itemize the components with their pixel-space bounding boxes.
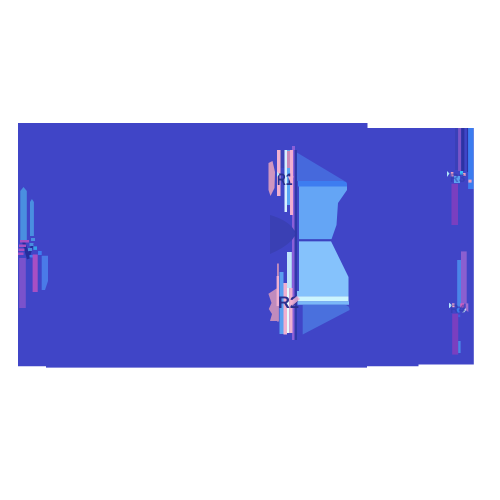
op-amp U1 lightest band <box>298 296 349 301</box>
label V1 (glitchy V strokes) <box>22 240 31 260</box>
voltage source V1 plate <box>20 187 27 242</box>
resistor R1 stripes <box>269 161 276 196</box>
op-amp U1 bottom wedge <box>303 305 350 335</box>
op-amp U1 band lower <box>298 301 350 305</box>
wire (purple vertical at op-amp left edge) <box>292 146 295 340</box>
op-amp U1 body upper <box>299 187 347 240</box>
resistor R4 lower stripe <box>452 314 458 355</box>
op-amp U1 top wedge <box>296 152 345 181</box>
V1 magenta glitch dashes <box>20 240 29 243</box>
resistor R3 top stripes <box>455 128 458 170</box>
label R4 (glitch marks) <box>449 303 453 309</box>
node A (dark beak, op-amp input junction) <box>270 215 295 254</box>
wire (V1 lower magenta stripe) <box>33 255 38 293</box>
resistor R3 lower stripe <box>452 184 459 225</box>
voltage source V1 plate 2 <box>30 199 34 236</box>
wire (V1 lower blue stripe) <box>42 256 48 290</box>
label V1 digit marks <box>33 246 37 250</box>
label R3 (glitch marks) <box>447 171 450 177</box>
wire (seam between op-amp halves) <box>299 239 332 241</box>
op-amp U1 bright band <box>298 181 347 187</box>
op-amp U1 body lower <box>299 241 349 296</box>
svg-text:R3: R3 <box>450 171 466 185</box>
op-amp U1 light band <box>292 291 349 296</box>
V1 blue dash ladder <box>31 238 35 241</box>
resistor R2 stripes <box>268 288 277 321</box>
wire (dark vertical at op-amp left edge) <box>295 150 298 340</box>
svg-text:R2: R2 <box>278 294 299 312</box>
wire (V1 lower purple stripe) <box>19 258 26 308</box>
wire loop (main circuit body, filled) <box>18 123 474 368</box>
wire (right mid stripes) <box>457 260 461 307</box>
